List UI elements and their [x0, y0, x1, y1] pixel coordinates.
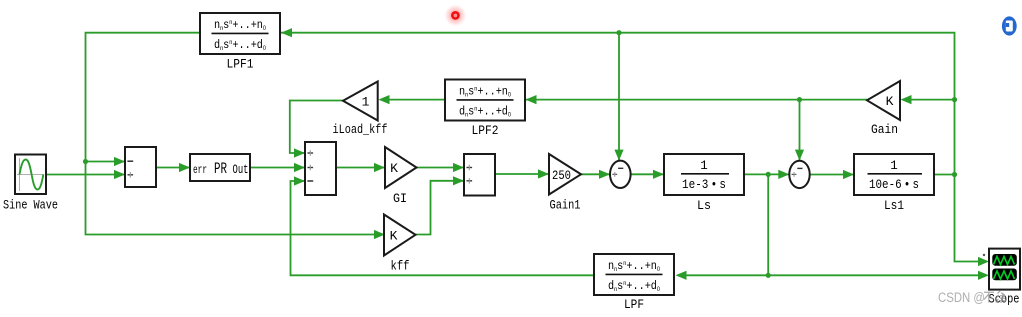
arrowhead into Scope input 1	[978, 257, 989, 266]
transfer function block Ls1	[854, 154, 934, 195]
arrowhead into Gain1	[538, 169, 549, 178]
wire: Ls output to sum junction 2	[744, 173, 789, 175]
wire: feedback from Ls1 output up right side to top rail	[200, 33, 955, 175]
wire: Sine Wave output to Sum1 plus input	[46, 174, 125, 176]
arrowhead into kff	[374, 230, 385, 239]
arrowhead into LPF input	[676, 271, 687, 280]
blue CSDN side button	[1002, 16, 1017, 35]
svg-text:Gain1: Gain1	[550, 198, 581, 213]
svg-text:CSDN @: CSDN @	[938, 290, 985, 305]
gray CSDN watermark	[938, 290, 1006, 305]
svg-text:LPF: LPF	[624, 297, 644, 312]
svg-text:10e-6 • s: 10e-6 • s	[869, 178, 919, 192]
junction node on Gain output line	[797, 97, 802, 102]
svg-text:Ls: Ls	[697, 198, 711, 213]
arrowhead into Sum2 input 2	[294, 163, 305, 172]
wire: err PR Out output to Sum2 middle input	[250, 167, 305, 169]
svg-text:iLoad_kff: iLoad_kff	[333, 122, 388, 137]
wire: iLoad_kff output down into Sum2 input 1	[290, 101, 343, 154]
wire: GI output to Sum3 input 1	[417, 167, 465, 169]
svg-text:LPF2: LPF2	[472, 123, 499, 138]
arrowhead into sum junction 1 left	[599, 170, 610, 179]
arrowhead into Sum2 input 1	[294, 148, 305, 157]
transfer function block Ls	[664, 154, 744, 195]
svg-text:LPF1: LPF1	[227, 57, 254, 72]
arrowhead into sum junction 1 top	[614, 150, 623, 161]
wire: Gain1 output to sum junction 1	[581, 173, 610, 175]
transfer function block LPF	[594, 254, 674, 295]
wire: LPF1 output left then down the left rail to kff	[86, 33, 376, 235]
svg-text:Out: Out	[233, 163, 249, 177]
svg-text:Ls1: Ls1	[884, 198, 904, 213]
svg-text:K: K	[390, 229, 398, 244]
arrowhead into sum junction 2 top	[795, 150, 804, 161]
source block Sine Wave	[15, 155, 46, 195]
svg-text:1: 1	[362, 95, 370, 110]
wire: Sum1 output to err PR Out	[156, 167, 190, 169]
gain block kff	[384, 215, 416, 256]
wire: LPF2 output to iLoad_kff input	[388, 99, 445, 101]
svg-text:PR: PR	[214, 160, 227, 178]
wire: left rail tee into Sum1 minus input	[86, 161, 126, 163]
arrowhead into Sum3 input 2	[453, 176, 464, 185]
wire: Sum2 output to GI gain	[336, 167, 385, 169]
arrowhead into sum junction 2 left	[778, 170, 789, 179]
arrowhead into Scope input 2	[978, 271, 989, 280]
arrowhead into Ls1	[843, 170, 854, 179]
wire: kff output up to Sum3 input 2	[416, 181, 465, 235]
arrowhead into Sum2 minus input	[294, 176, 305, 185]
junction node bottom rail	[766, 273, 771, 278]
svg-text:1e-3 • s: 1e-3 • s	[682, 178, 726, 192]
arrowhead into iLoad_kff input	[379, 95, 390, 104]
arrowhead into Sum1 minus	[114, 157, 125, 166]
wire: bottom rail - LPF input and Scope input 2	[768, 274, 979, 276]
arrowhead into Sum3 input 1	[453, 163, 464, 172]
gain block iLoad_kff (left pointing)	[343, 82, 378, 121]
wire: Gain output across to LPF2 input	[911, 99, 955, 101]
arrowhead into GI	[374, 163, 385, 172]
gain block Gain1	[549, 154, 581, 195]
svg-text:err: err	[193, 164, 207, 177]
sink block Scope	[989, 249, 1020, 290]
sum block Sum1	[125, 147, 156, 187]
junction node on top rail	[616, 30, 621, 35]
wire: right vertical down to Scope input 1	[955, 175, 980, 262]
svg-text:1: 1	[890, 159, 898, 173]
junction node on left rail	[83, 159, 88, 164]
svg-text:Gain: Gain	[871, 122, 898, 137]
svg-text:kff: kff	[391, 259, 410, 274]
junction node Ls1 output	[952, 172, 957, 177]
transfer function block LPF2	[445, 80, 525, 121]
arrowhead into Ls	[653, 170, 664, 179]
arrowhead into Sum1 plus	[114, 170, 125, 179]
wire: sum junction 2 output to Ls1	[810, 174, 854, 176]
svg-text:GI: GI	[393, 191, 407, 206]
sum junction 1 (circle)	[610, 161, 631, 188]
svg-text:K: K	[390, 161, 398, 176]
arrowhead into LPF1 input	[281, 28, 292, 37]
svg-text:K: K	[886, 94, 894, 109]
gain block Gain (left pointing)	[867, 81, 900, 120]
wire: node at top rail feeding sum junction 1	[618, 33, 620, 160]
wire: node on Gain output line down to sum junction 2	[799, 100, 801, 160]
junction node Ls output	[766, 172, 771, 177]
arrowhead into Gain input	[901, 95, 912, 104]
arrowhead into err PR Out	[179, 163, 190, 172]
gain block GI	[385, 147, 417, 188]
svg-text:Sine Wave: Sine Wave	[3, 198, 58, 213]
wire: Sum3 output to Gain1	[495, 173, 549, 175]
wire: LPF output left and up into Sum2 minus input	[291, 181, 595, 275]
wire: sum junction 1 output to Ls	[631, 173, 664, 175]
svg-text:1: 1	[700, 159, 708, 173]
red cursor highlight dot	[444, 4, 466, 26]
sum block Sum3	[464, 154, 495, 196]
svg-text:250: 250	[552, 169, 571, 183]
arrowhead into LPF2 input	[526, 95, 537, 104]
sum block Sum2	[305, 142, 336, 195]
junction node on Gain output right end	[952, 97, 957, 102]
wire: Ls output node down to bottom rail	[767, 174, 769, 275]
subsystem block err PR Out	[190, 154, 250, 181]
transfer function block LPF1	[200, 13, 280, 54]
speck	[983, 254, 985, 256]
sum junction 2 (circle)	[789, 161, 809, 188]
